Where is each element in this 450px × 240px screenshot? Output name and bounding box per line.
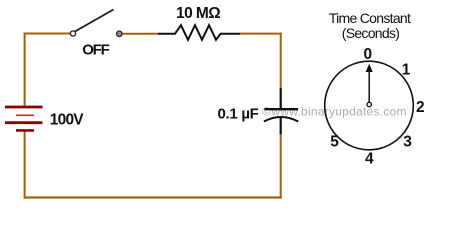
svg-text:5: 5 [330,134,339,151]
wire: left vertical upper (battery + lead) [24,33,26,107]
wire: switch to resistor [123,33,160,35]
meter needle shaft [368,71,370,105]
meter needle pivot [367,102,371,106]
resistor R1 (zigzag with black leads) [158,25,240,40]
wire: right vertical upper (to capacitor) [280,33,282,89]
battery B1 plate 3 (long) [5,121,43,124]
wire: top-left horizontal (battery + to switch) [24,33,71,35]
wire: resistor to top-right corner [240,33,282,35]
battery B1 plate 4 (short, -) [16,129,34,132]
battery B1 plate 2 (short) [16,114,34,116]
capacitor C1 top plate (straight) [264,108,298,110]
svg-text:0.1 µF: 0.1 µF [218,105,259,122]
svg-text:100V: 100V [50,111,84,128]
switch S1 lever [75,10,114,32]
svg-text:2: 2 [416,99,425,116]
switch S1 left terminal (open circle) [70,31,75,36]
svg-text:(Seconds): (Seconds) [342,25,400,41]
svg-text:OFF: OFF [82,41,109,58]
capacitor C1 bottom lead (black) [280,117,282,134]
svg-text:1: 1 [402,62,411,79]
svg-text:3: 3 [403,134,412,151]
meter dial circle [325,61,414,150]
wire: right vertical lower (from capacitor) [280,133,282,199]
svg-text:0: 0 [363,46,372,63]
capacitor C1 top lead (black) [280,88,282,109]
svg-text:4: 4 [365,151,374,168]
capacitor C1 bottom plate (curved) [264,117,298,122]
wire: bottom horizontal [24,196,282,198]
svg-text:Time Constant: Time Constant [329,10,411,26]
battery B1 plate 1 (long, +) [5,106,43,109]
meter needle arrowhead [366,64,373,72]
svg-text:10 MΩ: 10 MΩ [176,5,220,22]
switch S1 right terminal (filled circle) [117,31,122,36]
wire: left vertical lower (battery - lead) [24,131,26,199]
